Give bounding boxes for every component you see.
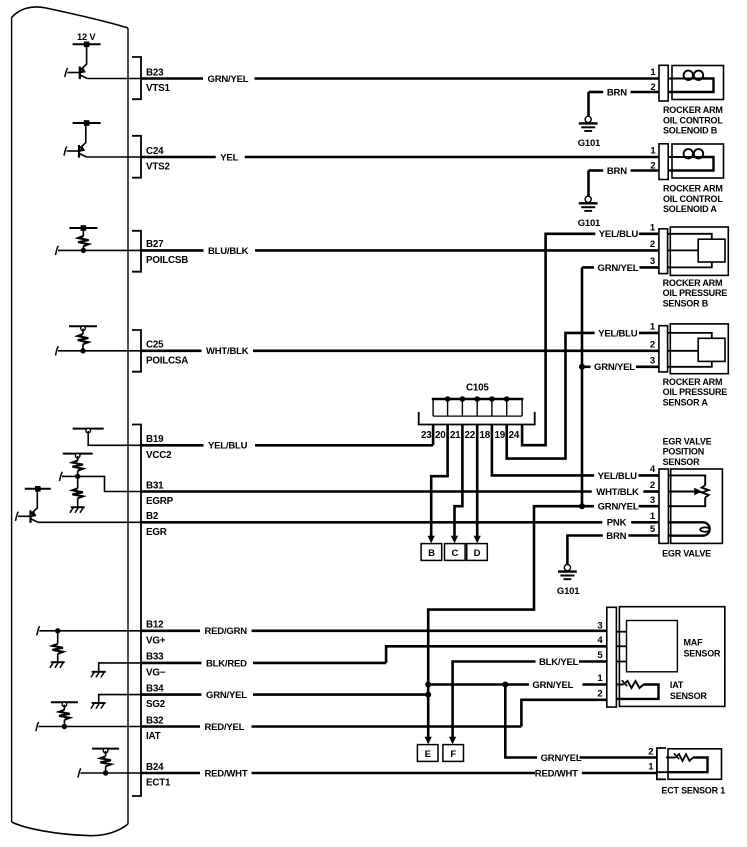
svg-text:F: F [450, 749, 456, 760]
svg-text:VCC2: VCC2 [146, 450, 172, 461]
wire PNK B2 to EGR valve pin 1 [141, 518, 659, 529]
svg-text:WHT/BLK: WHT/BLK [206, 346, 249, 357]
svg-text:GRN/YEL: GRN/YEL [206, 690, 247, 701]
wire RED/YEL B32 to IAT pin 2 [141, 700, 607, 733]
connector B box [421, 544, 442, 561]
svg-text:YEL/BLU: YEL/BLU [598, 328, 638, 339]
wire GRN/YEL bus (sensor B pin 3 down to EGR pin 3) [581, 267, 584, 506]
svg-text:24: 24 [509, 430, 520, 441]
svg-text:POILCSB: POILCSB [146, 255, 188, 266]
svg-text:VG+: VG+ [146, 635, 166, 646]
svg-text:IAT: IAT [146, 731, 161, 742]
connector bracket pin B23 [132, 57, 141, 99]
supply rail for B31 [63, 453, 93, 458]
svg-text:YEL/BLU: YEL/BLU [599, 229, 639, 240]
MAF sensor case [619, 607, 724, 707]
svg-text:EGRP: EGRP [146, 496, 174, 507]
ground G101 (EGR valve) [557, 565, 580, 597]
svg-text:G101: G101 [557, 586, 580, 597]
transistor Q1 [65, 44, 88, 79]
svg-text:RED/GRN: RED/GRN [205, 626, 248, 637]
connector C105 label [466, 383, 489, 394]
junction on B32 wire [62, 724, 67, 729]
wire C105 pin 22 to connector D [474, 425, 481, 544]
svg-text:WHT/BLK: WHT/BLK [596, 487, 639, 498]
supply rail for C25 [69, 326, 97, 331]
junction GRN/YEL at EGR pin 3 [579, 503, 585, 509]
junction on B27 wire [81, 248, 86, 253]
junction on B12 wire [55, 628, 60, 633]
ECM/PCM module band (torn-edge strip) [12, 7, 128, 836]
svg-text:SOLENOID B: SOLENOID B [663, 126, 718, 136]
svg-text:GRN/YEL: GRN/YEL [594, 362, 635, 373]
label rocker arm oil pressure sensor B [663, 278, 728, 308]
pin B2 / EGR labels [146, 511, 167, 538]
svg-text:BLK/YEL: BLK/YEL [539, 657, 579, 668]
pin C24 / VTS2 labels [146, 146, 170, 173]
wire B31 to pin [78, 476, 141, 491]
wire GRN/YEL B34 to junction [141, 690, 428, 701]
svg-text:GRN/YEL: GRN/YEL [598, 502, 639, 513]
wire Q2 emitter to pin C24 [87, 156, 142, 158]
svg-text:POSITION: POSITION [663, 447, 704, 457]
EGR valve connector [650, 464, 722, 543]
svg-text:RED/WHT: RED/WHT [535, 768, 578, 779]
svg-text:SENSOR B: SENSOR B [663, 298, 709, 308]
potentiometer (EGR valve position sensor) [668, 475, 708, 506]
wire RED/GRN B12 to MAF pin 3 [141, 626, 607, 637]
svg-text:SENSOR: SENSOR [663, 457, 701, 467]
resistor R2 (C25 pull-up) [78, 329, 89, 351]
svg-text:1: 1 [650, 67, 656, 78]
wire B12 internal [37, 626, 141, 635]
wire Q3 emitter to pin B2 [38, 521, 141, 523]
svg-text:1: 1 [650, 146, 656, 157]
svg-text:RED/YEL: RED/YEL [205, 722, 245, 733]
svg-text:2: 2 [650, 480, 655, 491]
wire VCC2 internal [88, 431, 141, 445]
supply rail for B24 [92, 748, 119, 753]
connector bracket pins B19-B24 [132, 425, 141, 797]
wire B33 internal [99, 663, 141, 671]
svg-text:G101: G101 [578, 218, 601, 229]
wire B24 internal [78, 768, 141, 777]
svg-text:EGR: EGR [146, 527, 167, 538]
junction GRN/YEL at IAT feed [425, 682, 431, 688]
svg-text:EGR VALVE: EGR VALVE [663, 437, 712, 447]
node 12V [77, 32, 96, 42]
label rocker arm oil pressure sensor A [663, 377, 728, 407]
svg-text:B: B [428, 548, 435, 559]
wire YEL/BLU B19 to C105 pin 23 [141, 425, 433, 452]
svg-text:21: 21 [450, 430, 461, 441]
svg-text:GRN/YEL: GRN/YEL [532, 680, 573, 691]
svg-text:1: 1 [650, 322, 656, 333]
svg-text:GRN/YEL: GRN/YEL [541, 753, 582, 764]
svg-text:IAT: IAT [670, 680, 684, 690]
pin B12 / VG+ labels [146, 620, 166, 647]
svg-text:VTS1: VTS1 [146, 83, 170, 94]
svg-text:ROCKER ARM: ROCKER ARM [663, 105, 723, 115]
svg-text:B12: B12 [146, 620, 164, 631]
pin B33 / VG- labels [146, 652, 166, 679]
wire BRN EGR pin 5 to ground [567, 531, 659, 565]
wire BLK/YEL MAF pin 5 to connector F [449, 657, 607, 744]
svg-text:22: 22 [465, 430, 476, 441]
connector F box [443, 745, 464, 762]
wire YEL/BLU C105 pin 18 to EGR valve pin 4 [492, 425, 659, 482]
svg-text:EGR VALVE: EGR VALVE [662, 548, 711, 558]
pin B19 / VCC2 labels [146, 434, 172, 461]
svg-text:BLK/RED: BLK/RED [206, 658, 247, 669]
svg-text:B34: B34 [146, 683, 164, 694]
label EGR valve position sensor [663, 437, 712, 467]
svg-text:E: E [425, 749, 431, 760]
wire C25 internal [55, 346, 141, 355]
resistor R7 (B24 pull-up) [100, 751, 111, 773]
wire C105 pin 21 to connector C [451, 425, 463, 544]
ground (B12) [50, 662, 65, 668]
12V rail for Q1 [73, 42, 101, 48]
svg-text:1: 1 [597, 673, 603, 684]
junction on C25 wire [80, 348, 85, 353]
svg-text:POILCSA: POILCSA [146, 355, 188, 366]
svg-text:B31: B31 [146, 480, 164, 491]
svg-text:ROCKER ARM: ROCKER ARM [663, 278, 723, 288]
svg-text:4: 4 [597, 635, 603, 646]
ground G101 (solenoid B) [578, 116, 601, 149]
svg-text:D: D [474, 548, 481, 559]
label ECT sensor 1 [661, 786, 725, 796]
svg-text:2: 2 [650, 340, 655, 351]
svg-text:B23: B23 [146, 67, 164, 78]
pin B32 / IAT labels [146, 715, 164, 742]
svg-text:5: 5 [597, 650, 603, 661]
connector bracket pin C25 [132, 330, 141, 372]
svg-text:C: C [451, 548, 458, 559]
svg-text:3: 3 [650, 356, 655, 367]
svg-text:BLU/BLK: BLU/BLK [208, 246, 249, 257]
svg-text:2: 2 [650, 239, 655, 250]
svg-text:ROCKER ARM: ROCKER ARM [663, 184, 723, 194]
supply rail for B32 [51, 702, 78, 707]
pin B27 / POILCSB labels [146, 239, 188, 266]
svg-text:B24: B24 [146, 762, 164, 773]
svg-text:1: 1 [650, 511, 656, 522]
svg-text:1: 1 [648, 761, 654, 772]
svg-text:B32: B32 [146, 715, 164, 726]
wire GRN/YEL to ECT sensor pin 2 [505, 685, 657, 764]
supply rail VCC2 [73, 428, 104, 433]
svg-text:3: 3 [650, 256, 655, 267]
svg-text:YEL/BLU: YEL/BLU [598, 471, 638, 482]
svg-text:SENSOR: SENSOR [670, 691, 708, 701]
svg-text:B33: B33 [146, 652, 164, 663]
wire B34 internal [99, 695, 141, 703]
svg-text:ECT SENSOR 1: ECT SENSOR 1 [661, 786, 725, 796]
junction on B24 wire [103, 770, 108, 775]
svg-text:B19: B19 [146, 434, 164, 445]
svg-text:OIL CONTROL: OIL CONTROL [663, 194, 723, 204]
ECT sensor connector [648, 746, 666, 779]
wire B27 internal [55, 246, 141, 255]
svg-text:GRN/YEL: GRN/YEL [208, 74, 249, 85]
wire GRN/YEL branch to connector E [425, 506, 582, 744]
svg-text:PNK: PNK [607, 518, 627, 529]
ground (B31 chain) [70, 507, 85, 513]
ground (B34) [91, 703, 106, 709]
connector bracket pin B27 [132, 231, 141, 272]
ground G101 (solenoid A) [578, 196, 601, 229]
wire WHT/BLK C25 to oil pressure sensor A pin 2 [141, 346, 659, 357]
svg-text:C105: C105 [466, 383, 489, 394]
connector C105 body [419, 396, 535, 424]
pin B31 / EGRP labels [146, 480, 174, 507]
svg-text:SENSOR: SENSOR [684, 649, 722, 659]
pull-up rail for B27 [69, 225, 97, 231]
svg-text:MAF: MAF [684, 637, 704, 647]
ground (B33) [91, 672, 106, 678]
svg-text:12 V: 12 V [77, 32, 96, 42]
wire YEL/BLU C105 pin 19 to oil pressure sensor A pin 1 [507, 328, 659, 458]
svg-text:B2: B2 [146, 511, 159, 522]
wire GRN/YEL B23 to solenoid B pin 1 [141, 74, 659, 85]
wire BLK/RED B33 to MAF pin 4 [141, 646, 607, 669]
svg-text:20: 20 [435, 430, 446, 441]
pin C25 / POILCSA labels [146, 340, 188, 367]
connector D box [467, 544, 488, 561]
svg-text:SG2: SG2 [146, 699, 166, 710]
transistor Q2 [64, 123, 87, 158]
wire Q1 emitter to pin B23 [87, 78, 141, 80]
svg-text:C24: C24 [146, 146, 164, 157]
svg-text:OIL CONTROL: OIL CONTROL [663, 115, 723, 125]
wire GRN/YEL to oil pressure sensor A pin 3 [582, 362, 659, 373]
resistor R6 (B32 pull-up) [59, 705, 70, 727]
wire GRN/YEL to IAT sensor pin 1 [428, 680, 607, 691]
svg-text:5: 5 [650, 524, 656, 535]
connector C105 pin numbers [421, 430, 520, 441]
svg-text:1: 1 [650, 223, 656, 234]
resistor R5 (B12) [52, 631, 63, 662]
svg-text:C25: C25 [146, 340, 164, 351]
svg-text:3: 3 [650, 495, 655, 506]
rail for Q3 [25, 486, 51, 492]
transistor Q3 [15, 489, 38, 523]
pin B24 / ECT1 labels [146, 762, 171, 789]
wire GRN/YEL to oil pressure sensor B pin 3 [582, 263, 659, 274]
wire WHT/BLK B31 to EGR valve pin 2 [141, 487, 659, 498]
label rocker arm oil control solenoid A [663, 184, 723, 215]
wire B31 input stub [59, 472, 77, 481]
svg-text:19: 19 [495, 430, 506, 441]
resistor R3 (B31 upper) [72, 456, 83, 477]
solenoid coil + connector (rocker arm oil control solenoid A) [589, 144, 724, 196]
junction GRN/YEL at sensor A pin 3 [579, 364, 585, 370]
12V rail for Q2 [73, 120, 101, 126]
label rocker arm oil control solenoid B [663, 105, 723, 136]
svg-text:GRN/YEL: GRN/YEL [598, 263, 639, 274]
svg-text:2: 2 [597, 688, 602, 699]
svg-text:3: 3 [597, 620, 602, 631]
svg-text:23: 23 [421, 430, 432, 441]
connector E box [417, 745, 438, 762]
junction GRN/YEL to ECT branch [502, 682, 508, 688]
svg-text:ECT1: ECT1 [146, 778, 171, 789]
svg-text:B27: B27 [146, 239, 164, 250]
EGR valve solenoid (pictorial) [668, 522, 709, 535]
wire C105 pin 20 to connector B [428, 425, 448, 544]
wire RED/WHT B24 to ECT pin 1 [141, 768, 657, 779]
thermistor (IAT sensor) [616, 680, 658, 699]
wire GRN/YEL to EGR valve pin 3 [582, 502, 659, 513]
connector C box [445, 544, 466, 561]
MAF sensor element box [616, 621, 677, 672]
wire B32 internal [36, 722, 141, 731]
svg-text:4: 4 [650, 464, 656, 475]
label IAT sensor [670, 680, 708, 701]
svg-text:BRN: BRN [607, 87, 627, 98]
svg-text:YEL/BLU: YEL/BLU [208, 441, 248, 452]
resistor R1 (B27 pull-up) [78, 231, 89, 251]
wire YEL/BLU C105 pin 24 to oil pressure sensor B pin 1 [522, 229, 659, 445]
connector bracket pin C24 [132, 136, 141, 178]
svg-text:VG−: VG− [146, 668, 166, 679]
label MAF sensor [684, 637, 722, 658]
svg-text:OIL PRESSURE: OIL PRESSURE [663, 387, 728, 397]
wire YEL C24 to solenoid A pin 1 [141, 152, 659, 163]
svg-text:ROCKER ARM: ROCKER ARM [663, 377, 723, 387]
svg-text:VTS2: VTS2 [146, 162, 170, 173]
svg-text:2: 2 [648, 746, 653, 757]
pin B34 / SG2 labels [146, 683, 166, 710]
resistor R4 (B31 lower) [72, 476, 83, 506]
svg-text:18: 18 [480, 430, 491, 441]
ECT sensor case [668, 749, 722, 780]
junction GRN/YEL at B34 wire [425, 692, 431, 698]
svg-text:SENSOR A: SENSOR A [663, 397, 709, 407]
svg-text:BRN: BRN [607, 166, 627, 177]
pin B23 / VTS1 labels [146, 67, 170, 94]
solenoid coil + connector (rocker arm oil control solenoid B) [589, 65, 724, 116]
label EGR valve [662, 548, 711, 558]
MAF sensor connector [607, 607, 617, 707]
MAF/IAT connector pin numbers [597, 620, 603, 699]
svg-text:G101: G101 [578, 138, 601, 149]
svg-text:YEL: YEL [220, 152, 238, 163]
svg-text:RED/WHT: RED/WHT [205, 768, 248, 779]
oil pressure sensor B component [650, 223, 728, 276]
junction on B31 divider [75, 474, 80, 479]
wire BLU/BLK B27 to oil pressure sensor B pin 2 [141, 246, 659, 257]
svg-text:OIL PRESSURE: OIL PRESSURE [663, 288, 728, 298]
svg-text:BRN: BRN [606, 531, 626, 542]
thermistor (ECT sensor 1) [657, 753, 708, 772]
svg-text:SOLENOID A: SOLENOID A [663, 204, 717, 214]
oil pressure sensor A component [650, 322, 728, 374]
